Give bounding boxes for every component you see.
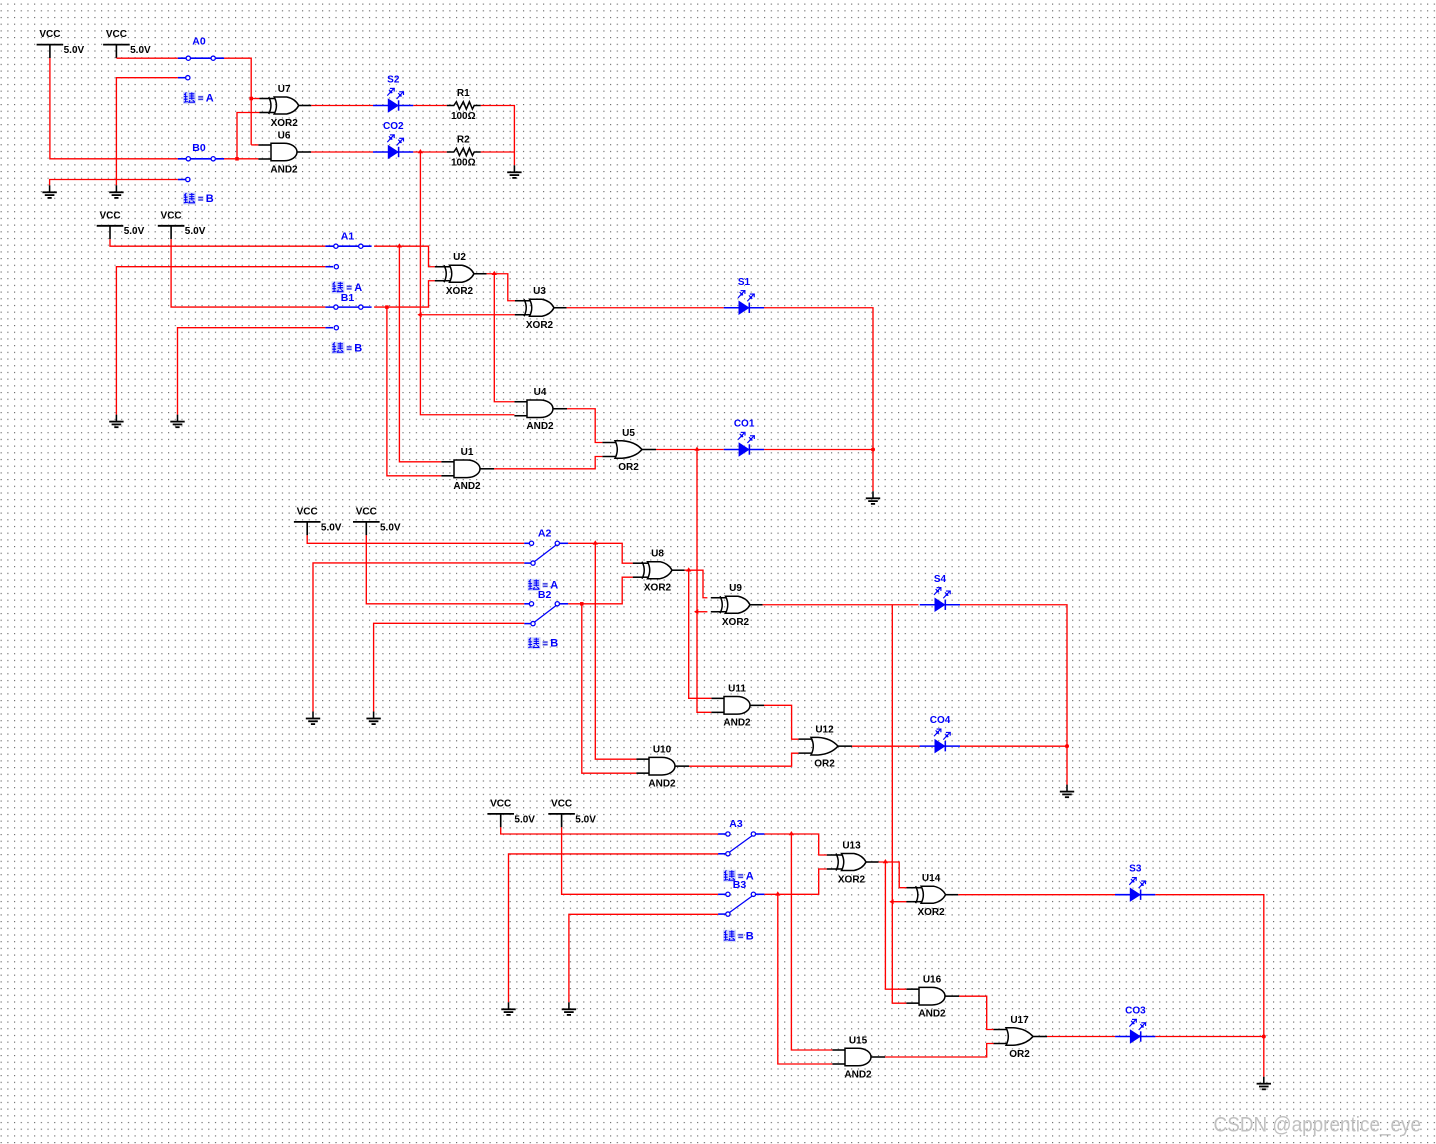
svg-text:B2: B2	[538, 589, 552, 601]
svg-text:CO4: CO4	[930, 715, 951, 726]
svg-text:OR2: OR2	[814, 759, 835, 770]
svg-text:A2: A2	[538, 528, 552, 540]
svg-text:XOR2: XOR2	[446, 286, 474, 297]
svg-text:S1: S1	[738, 277, 751, 288]
svg-text:XOR2: XOR2	[722, 617, 750, 628]
svg-text:B: B	[206, 193, 214, 205]
svg-text:VCC: VCC	[297, 507, 318, 518]
svg-text:A1: A1	[341, 231, 355, 243]
svg-text:R1: R1	[457, 88, 470, 99]
svg-text:A0: A0	[192, 36, 206, 48]
svg-text:5.0V: 5.0V	[185, 226, 206, 237]
svg-text:CO2: CO2	[383, 121, 404, 132]
svg-text:U4: U4	[534, 387, 547, 398]
svg-text:5.0V: 5.0V	[380, 522, 401, 533]
svg-text:U12: U12	[815, 725, 834, 736]
svg-text:5.0V: 5.0V	[514, 814, 535, 825]
svg-text:U10: U10	[653, 745, 672, 756]
svg-text:AND2: AND2	[526, 421, 554, 432]
svg-text:B1: B1	[341, 292, 355, 304]
svg-text:B: B	[550, 638, 558, 650]
svg-text:XOR2: XOR2	[271, 118, 299, 129]
svg-text:B: B	[746, 930, 754, 942]
svg-text:AND2: AND2	[918, 1009, 946, 1020]
svg-text:VCC: VCC	[551, 799, 572, 810]
svg-text:U16: U16	[923, 975, 942, 986]
svg-text:CO1: CO1	[734, 419, 755, 430]
svg-text:U14: U14	[922, 873, 941, 884]
svg-text:U6: U6	[278, 130, 291, 141]
svg-text:A: A	[550, 579, 558, 591]
svg-text:R2: R2	[457, 134, 470, 145]
svg-text:U9: U9	[729, 583, 742, 594]
svg-text:100Ω: 100Ω	[451, 158, 476, 169]
svg-text:OR2: OR2	[1009, 1049, 1030, 1060]
svg-text:U8: U8	[651, 549, 664, 560]
svg-text:VCC: VCC	[39, 29, 60, 40]
svg-text:5.0V: 5.0V	[124, 226, 145, 237]
svg-text:U15: U15	[849, 1035, 868, 1046]
svg-text:S3: S3	[1129, 864, 1142, 875]
svg-text:B: B	[354, 342, 362, 354]
svg-text:U2: U2	[453, 252, 466, 263]
svg-text:U11: U11	[728, 684, 746, 695]
svg-text:U1: U1	[461, 447, 474, 458]
svg-text:AND2: AND2	[453, 481, 481, 492]
svg-text:U17: U17	[1010, 1015, 1029, 1026]
svg-text:CSDN @apprentice_eye: CSDN @apprentice_eye	[1214, 1113, 1421, 1136]
svg-text:5.0V: 5.0V	[321, 522, 342, 533]
svg-text:B3: B3	[733, 879, 747, 891]
svg-text:100Ω: 100Ω	[451, 111, 476, 122]
svg-text:OR2: OR2	[618, 462, 639, 473]
svg-text:XOR2: XOR2	[526, 320, 554, 331]
svg-text:AND2: AND2	[648, 779, 676, 790]
svg-text:VCC: VCC	[99, 210, 120, 221]
svg-text:S2: S2	[387, 75, 400, 86]
svg-text:U5: U5	[622, 428, 635, 439]
svg-text:5.0V: 5.0V	[575, 814, 596, 825]
svg-text:B0: B0	[192, 142, 206, 154]
svg-text:AND2: AND2	[270, 164, 298, 175]
svg-text:AND2: AND2	[723, 718, 751, 729]
svg-text:5.0V: 5.0V	[64, 45, 85, 56]
svg-text:VCC: VCC	[161, 210, 182, 221]
svg-text:S4: S4	[934, 574, 947, 585]
svg-text:XOR2: XOR2	[644, 583, 672, 594]
svg-text:A: A	[354, 282, 362, 294]
svg-text:U13: U13	[842, 840, 861, 851]
svg-text:XOR2: XOR2	[917, 907, 945, 918]
svg-text:AND2: AND2	[844, 1069, 872, 1080]
svg-text:U7: U7	[278, 84, 291, 95]
svg-text:VCC: VCC	[106, 29, 127, 40]
svg-text:U3: U3	[533, 286, 546, 297]
svg-text:A: A	[746, 870, 754, 882]
svg-text:A3: A3	[729, 818, 743, 830]
svg-text:A: A	[206, 92, 214, 104]
svg-text:XOR2: XOR2	[838, 874, 866, 885]
svg-text:VCC: VCC	[356, 507, 377, 518]
svg-text:VCC: VCC	[490, 799, 511, 810]
svg-text:5.0V: 5.0V	[130, 45, 151, 56]
svg-text:CO3: CO3	[1125, 1006, 1146, 1017]
